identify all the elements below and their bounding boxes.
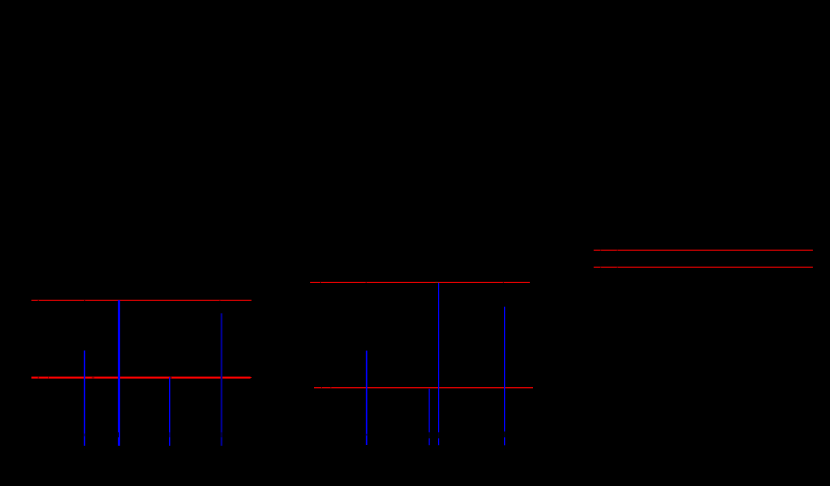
left lower level: segment notch 4 [170,377,172,379]
right group: upper red level line [594,250,813,251]
right group: lower red level line [594,267,813,268]
middle stick 3 (tall, x=438.6) [438,283,439,433]
left lower level: segment dim 3 [92,377,95,379]
middle stick 2 (short, x=429.2) [429,389,430,433]
middle stick 1 dim band [366,434,368,436]
left upper level: segment notch 3 [218,300,221,301]
left group: upper red level line [31,300,251,301]
middle group: upper red level line [310,282,530,283]
right upper level: segment notch 1 [599,250,602,251]
right upper level: segment notch 2 [616,250,619,251]
left stick 4 (dim navy, x=221.5) [221,313,223,446]
right lower level: segment notch 2 [616,267,619,268]
left lower level: segment notch 2 [47,377,50,379]
middle lower level: segment notch 2 [329,387,332,388]
middle stick 4 faint connector [504,432,505,438]
middle group: lower red level line [314,387,533,388]
left stick 2 dim band (left half) [118,432,119,437]
right lower level: segment notch 1 [599,267,602,268]
left group: lower red level line (thick) [31,377,250,379]
left stick 4 dim band [221,432,223,437]
left upper level: segment notch 2 [84,300,85,301]
middle upper level: segment notch 2 [365,282,368,283]
left lower level: thin right tail [251,377,252,378]
middle lower level: segment notch 1 [320,387,323,388]
left stick 3 dim band [169,432,170,437]
middle stick 2 faint connector [429,432,430,438]
middle stick 2 bottom dash [429,438,430,445]
left stick 2 (thick, x=119) [118,300,120,446]
middle upper level: segment notch 1 [319,282,322,283]
middle stick 3 faint connector [438,432,439,438]
middle stick 4 bottom dash [504,437,505,445]
left stick 1 (x=84.5) [84,351,85,446]
middle upper level: segment notch 4 [502,282,505,283]
middle stick 1 (x=366.6) [366,351,368,445]
middle upper level: segment dim 3 [435,282,438,283]
middle stick 3 bottom dash [438,438,439,445]
left stick 1 dim band [84,434,85,437]
left lower level: segment notch 1 [38,377,39,379]
middle stick 4 (x=504.6) [504,307,505,432]
left stick 3 (x=169.6) [169,377,170,446]
left upper level: segment notch 1 [38,300,39,301]
